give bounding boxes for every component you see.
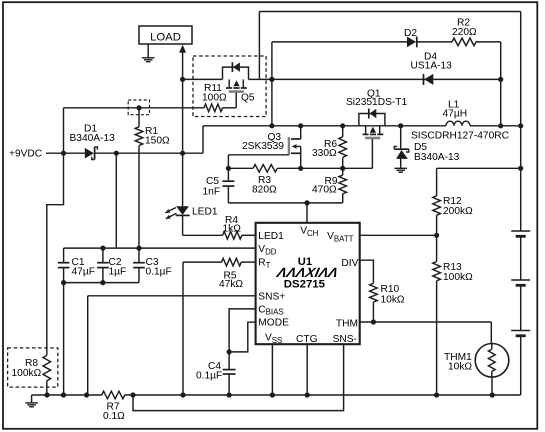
svg-text:THM: THM — [336, 319, 358, 330]
svg-text:150Ω: 150Ω — [145, 136, 170, 147]
svg-text:0.1µF: 0.1µF — [196, 371, 222, 382]
svg-text:ΛΛΛXIΛΛ: ΛΛΛXIΛΛ — [275, 265, 340, 280]
svg-text:DIV: DIV — [341, 258, 358, 269]
svg-text:SNS+: SNS+ — [258, 291, 285, 302]
svg-text:SNS-: SNS- — [333, 334, 357, 345]
svg-text:47µH: 47µH — [443, 109, 468, 120]
svg-text:LED1: LED1 — [192, 207, 218, 218]
svg-text:RT: RT — [258, 258, 270, 270]
svg-text:R10: R10 — [381, 284, 400, 295]
svg-text:SISCDRH127-470RC: SISCDRH127-470RC — [411, 130, 509, 141]
svg-text:100Ω: 100Ω — [202, 93, 227, 104]
svg-text:VBATT: VBATT — [327, 231, 354, 243]
svg-text:CTG: CTG — [296, 334, 318, 345]
svg-text:820Ω: 820Ω — [252, 184, 277, 195]
svg-text:R8: R8 — [25, 358, 38, 369]
svg-text:330Ω: 330Ω — [312, 148, 337, 159]
svg-text:200kΩ: 200kΩ — [443, 206, 473, 217]
svg-text:0.1Ω: 0.1Ω — [103, 411, 125, 422]
svg-text:Q5: Q5 — [241, 93, 255, 104]
svg-text:1nF: 1nF — [203, 186, 221, 197]
svg-text:1kΩ: 1kΩ — [223, 223, 242, 234]
svg-text:47µF: 47µF — [72, 267, 95, 278]
svg-text:DS2715: DS2715 — [284, 279, 326, 291]
svg-text:100kΩ: 100kΩ — [12, 368, 42, 379]
svg-text:VCH: VCH — [300, 226, 318, 238]
svg-text:B340A-13: B340A-13 — [414, 152, 460, 163]
svg-text:D2: D2 — [404, 28, 417, 39]
svg-text:10kΩ: 10kΩ — [381, 295, 405, 306]
svg-text:VSS: VSS — [265, 333, 282, 345]
svg-text:0.1µF: 0.1µF — [146, 267, 172, 278]
svg-text:LED1: LED1 — [258, 231, 284, 242]
svg-text:LOAD: LOAD — [150, 31, 181, 43]
svg-text:1µF: 1µF — [109, 267, 127, 278]
svg-text:47kΩ: 47kΩ — [219, 279, 243, 290]
svg-text:470Ω: 470Ω — [312, 185, 337, 196]
svg-text:CBIAS: CBIAS — [258, 305, 283, 317]
svg-text:Si2351DS-T1: Si2351DS-T1 — [346, 97, 407, 108]
svg-text:MODE: MODE — [258, 318, 289, 329]
svg-text:VDD: VDD — [258, 244, 276, 256]
svg-text:US1A-13: US1A-13 — [411, 60, 453, 71]
svg-text:220Ω: 220Ω — [452, 27, 477, 38]
svg-text:100kΩ: 100kΩ — [443, 272, 473, 283]
svg-text:10kΩ: 10kΩ — [448, 361, 472, 372]
svg-text:+9VDC: +9VDC — [9, 149, 42, 160]
svg-text:2SK3539: 2SK3539 — [242, 141, 284, 152]
svg-text:B340A-13: B340A-13 — [70, 133, 116, 144]
